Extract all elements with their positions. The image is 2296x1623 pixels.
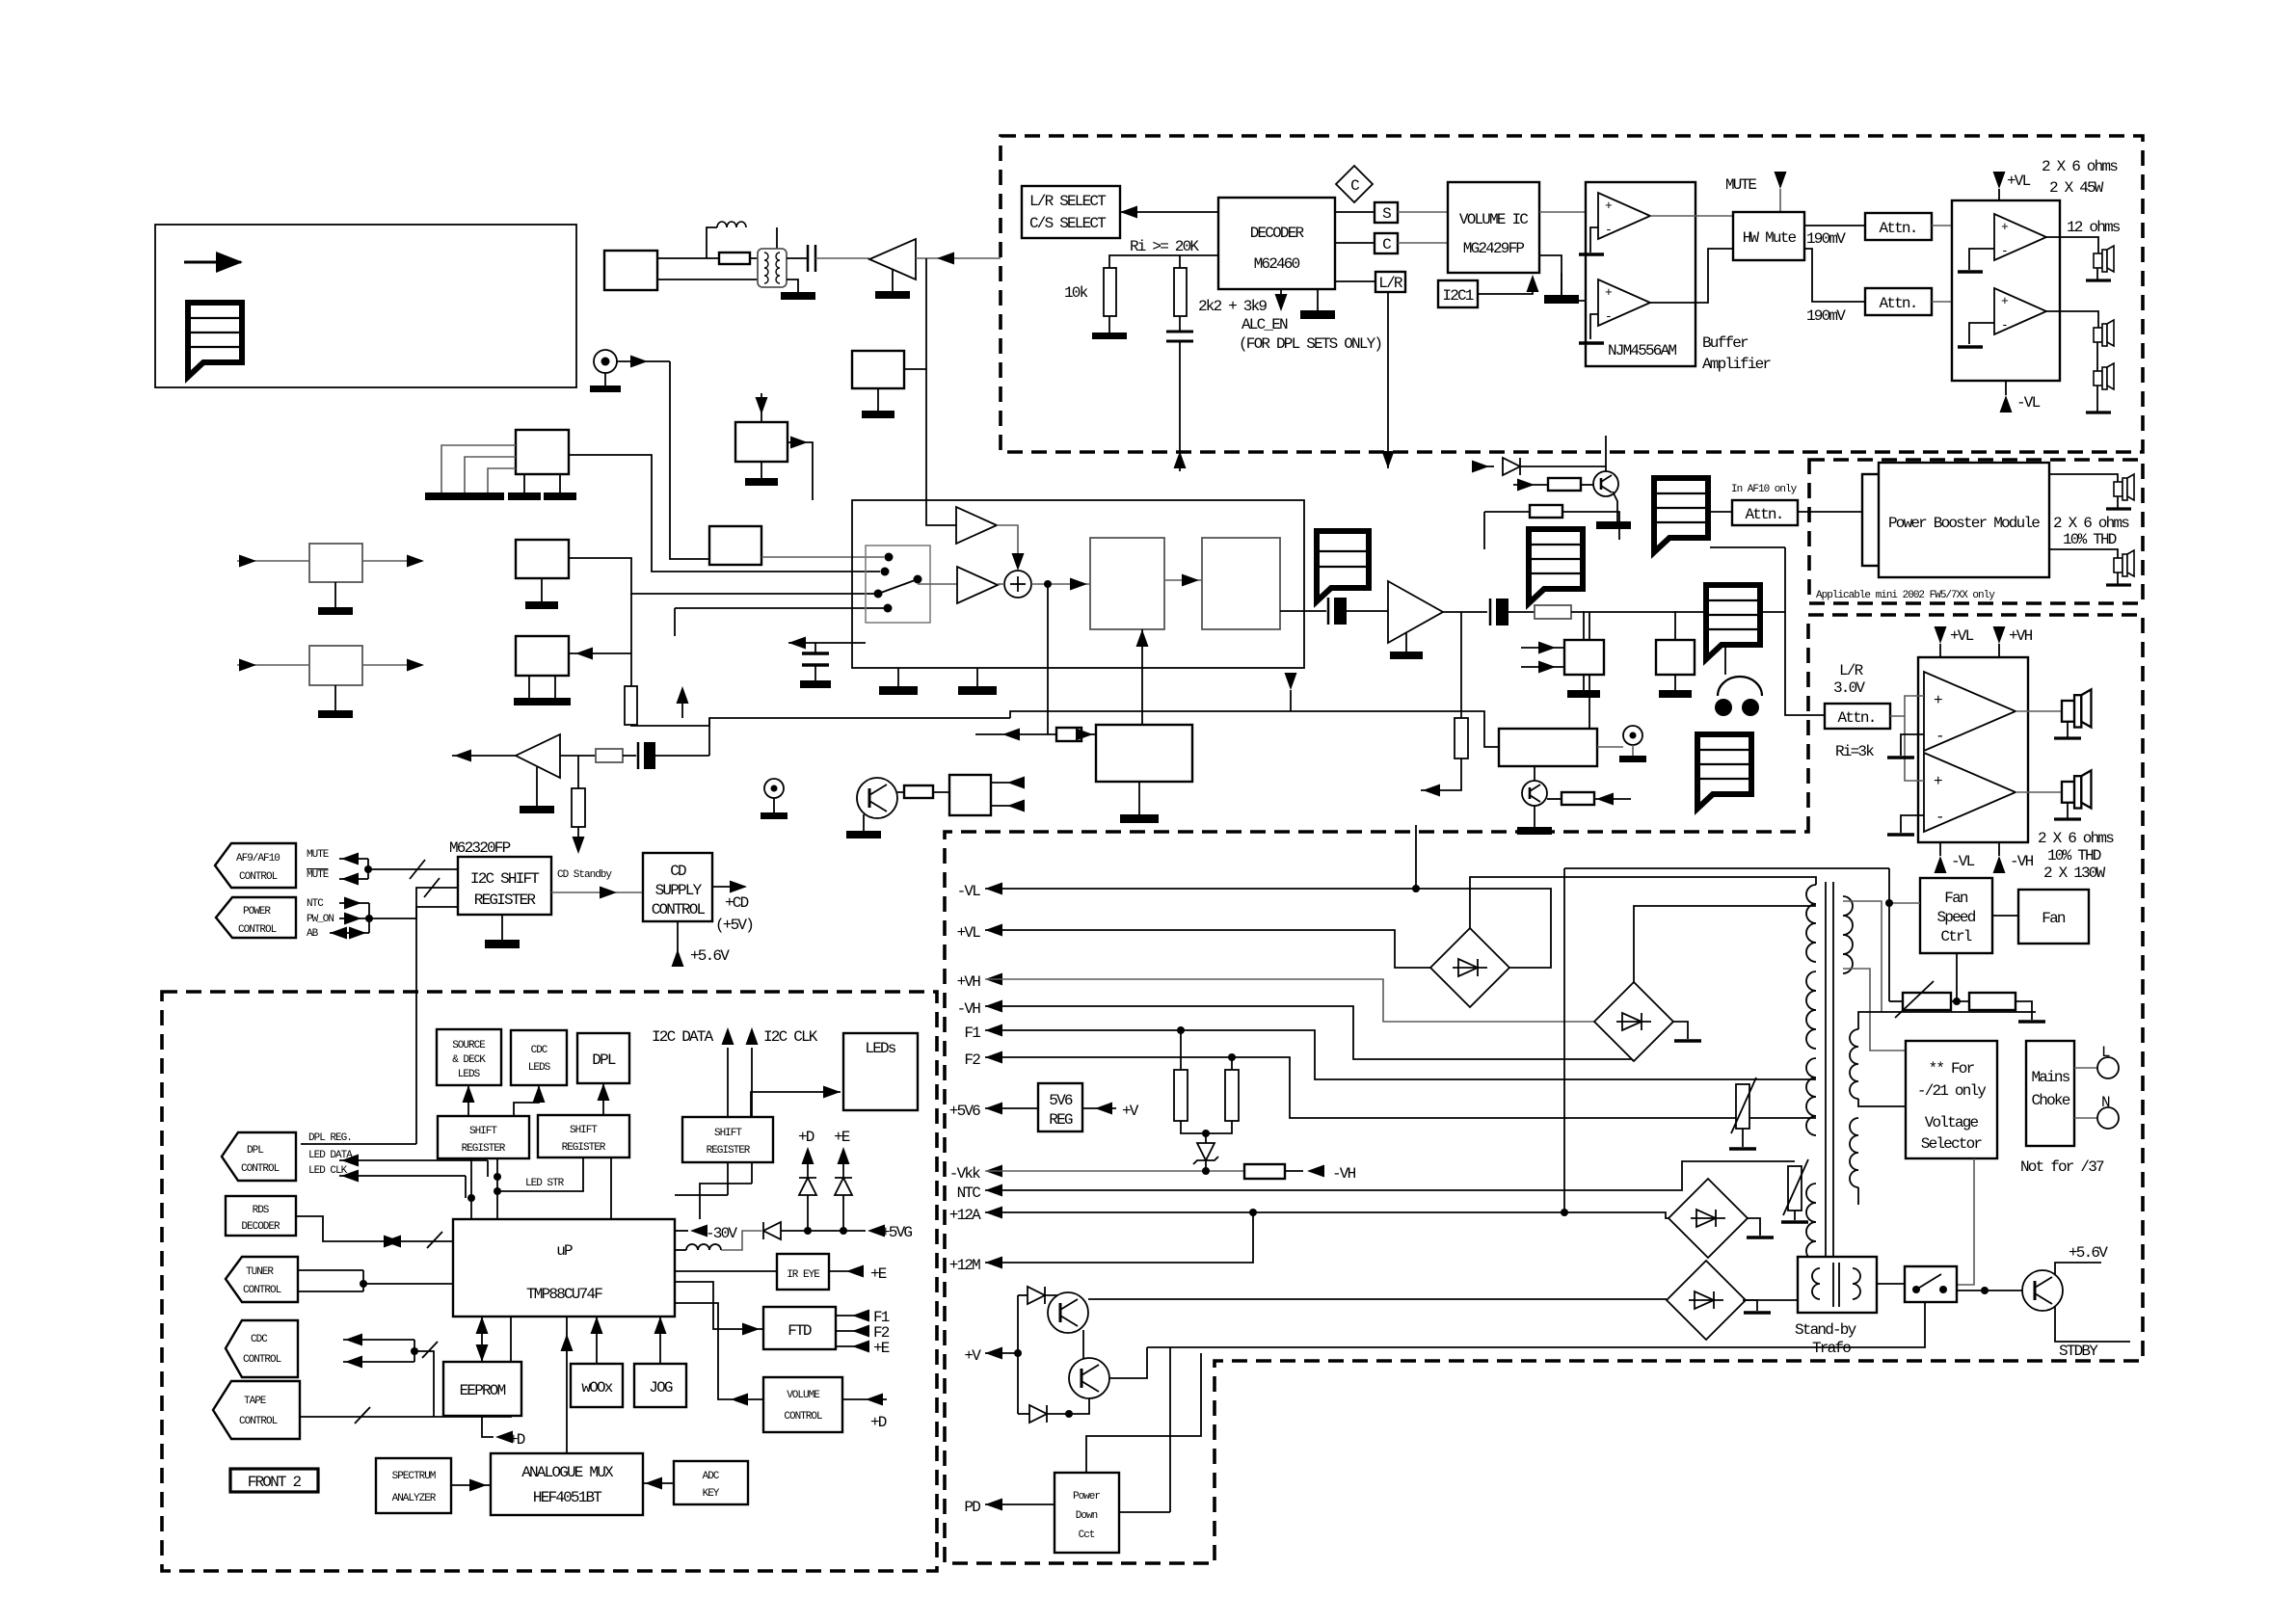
tuner box L2 [309,646,362,685]
svg-text:M62460: M62460 [1254,255,1300,273]
svg-text:Not for /37: Not for /37 [2020,1158,2104,1176]
inductor to +5VG [675,1249,686,1251]
svg-text:I2C1: I2C1 [1442,287,1473,305]
wire to filter lower [657,279,760,280]
FRONT 2 label box [230,1469,318,1492]
cdc leds box [511,1030,567,1085]
N1 wire to select switch [761,556,884,558]
svg-text:(+5V): (+5V) [715,917,753,934]
ADC key box [674,1461,748,1504]
feedback ground buf2 [1590,314,1598,339]
fan speed control box [1920,878,1992,953]
wire into input amp [916,257,1001,259]
M1 ground [541,578,543,601]
headphones icon [1718,677,1762,696]
wire B1 to B2 [1164,579,1202,581]
svg-text:STDBY: STDBY [2059,1343,2098,1360]
svg-text:+V: +V [964,1347,981,1365]
M2 input wire [568,652,631,654]
svg-text:10% THD: 10% THD [2063,531,2117,548]
standby trafo [1798,1257,1877,1313]
coupling capacitor [787,257,808,259]
decoder IC box M0 [516,430,569,474]
svg-text:SHIFT: SHIFT [714,1128,742,1139]
svg-text:I2C SHIFT: I2C SHIFT [470,870,539,888]
headphone driver op-amp [1388,581,1443,643]
main +12 feed vertical [1563,868,1565,1212]
wire I2C1 to volume IC [1478,280,1533,294]
FTD wires [675,1282,763,1329]
svg-text:-VL: -VL [957,883,981,900]
summer node [1004,571,1031,598]
L1 ground [334,582,336,607]
ADC to mux arrow [643,1482,674,1484]
op-amp PA2 [1994,288,2046,334]
dashed container: stereo decoder / volume block [1001,136,2143,452]
svg-text:+12M: +12M [949,1257,980,1274]
-VL rail [1415,825,1417,889]
wire to attn of main amp [1785,612,1825,715]
svg-text:TMP88CU74F: TMP88CU74F [526,1286,602,1303]
bubble phones [1697,734,1751,809]
svg-text:+VL: +VL [2007,173,2031,190]
buffer amplifier NJM4556AM box [1586,182,1695,366]
svg-text:LED STR: LED STR [525,1178,565,1189]
TUNER control pentagon [226,1257,298,1302]
bubble aux [1706,585,1760,659]
L1 output arrow [362,560,422,562]
series resistor [1500,611,1535,613]
svg-text:3.0V: 3.0V [1833,679,1865,697]
svg-text:5V6: 5V6 [1049,1092,1073,1109]
speaker SP3 [2094,363,2114,389]
resistor into C1 [1056,728,1081,741]
volume control wires [675,1303,763,1399]
svg-text:AF9/AF10: AF9/AF10 [236,853,280,865]
svg-text:+12A: +12A [949,1207,981,1224]
svg-text:-VL: -VL [1951,853,1975,870]
CD supply control box [643,853,712,921]
headphone level resistor branch [1460,612,1462,718]
svg-text:SPECTRUM: SPECTRUM [392,1471,436,1482]
svg-text:LEDS: LEDS [528,1062,551,1074]
speaker SP1 [2094,246,2114,272]
svg-text:Amplifier: Amplifier [1702,356,1771,373]
wire attn to power booster [1798,511,1879,513]
svg-text:I2C DATA: I2C DATA [652,1028,714,1046]
transformer primary winding 1 [1843,896,1853,973]
L1 input arrow [237,560,309,562]
supply diode [763,1222,781,1239]
voltage selector box [1906,1041,1997,1158]
T2 emitter ground [863,814,865,831]
svg-text:NTC: NTC [307,898,324,910]
svg-text:RDS: RDS [253,1205,270,1216]
wire volume to buffer op-amp 1 [1539,211,1598,213]
svg-text:Speed: Speed [1936,909,1975,926]
svg-text:C: C [1382,236,1391,253]
svg-text:Attn.: Attn. [1879,295,1916,312]
wire down to input select [670,361,709,559]
svg-text:10% THD: 10% THD [2047,847,2101,865]
svg-text:+VL: +VL [957,924,981,942]
svg-text:Choke: Choke [2031,1092,2069,1109]
svg-text:SUPPLY: SUPPLY [655,882,703,899]
+VL +VH rails [1935,626,1947,644]
wOOx arrow [596,1317,598,1364]
-VL supply [2005,381,2007,395]
VOLUME CONTROL box [763,1377,842,1432]
svg-text:-Vkk: -Vkk [949,1165,980,1183]
input op-amp (left pointing) [869,239,916,279]
svg-text:HW Mute: HW Mute [1743,229,1797,247]
tuner wires [298,1269,363,1271]
RDS decoder box [226,1196,296,1236]
L2 ground [334,685,336,710]
main power amp box [1918,657,2028,842]
svg-text:Fan: Fan [2042,910,2066,927]
svg-text:Stand-by: Stand-by [1795,1321,1857,1339]
fan wires [1992,915,2018,917]
switch contacts [885,553,894,562]
IR eye wires [675,1270,777,1272]
RDS wire to uP [296,1216,453,1241]
muting transistor T1 [1593,471,1618,496]
feedback loop with coil [707,227,717,258]
PA4 feedback ground [1901,815,1924,833]
svg-text:REGISTER: REGISTER [707,1145,751,1157]
F1 ground [877,388,879,411]
main amp + PSU dashed outline [945,615,2143,1563]
svg-text:2 X 6 ohms: 2 X 6 ohms [2053,515,2129,532]
legend arrow symbol [184,261,241,264]
power booster dashed box [1809,460,2143,603]
svg-text:ANALOGUE MUX: ANALOGUE MUX [521,1464,614,1481]
svg-text:VOLUME IC: VOLUME IC [1459,211,1528,228]
svg-text:VOLUME: VOLUME [787,1390,820,1401]
box M1 [516,540,569,578]
svg-text:+5.6V: +5.6V [2069,1244,2108,1262]
svg-text:-30V: -30V [706,1225,737,1242]
T2 collector resistor to box E1 [897,791,949,793]
svg-text:CONTROL: CONTROL [652,901,706,918]
svg-text:12 ohms: 12 ohms [2067,219,2121,236]
resistor 2k2+3k9 [1174,268,1187,316]
fourth select wire [675,607,886,609]
svg-text:Voltage: Voltage [1925,1114,1979,1131]
transistor Q2 [1069,1358,1109,1398]
L2 input arrow [237,664,309,666]
svg-text:& DECK: & DECK [452,1054,486,1066]
svg-text:DECODER: DECODER [241,1221,280,1233]
svg-text:+VL: +VL [1950,627,1974,645]
svg-text:F2: F2 [964,1051,980,1069]
junction to zener [1181,1121,1232,1133]
headphone attn box [1825,704,1890,729]
wire to filter upper [657,257,760,259]
chassis grounds under main box [897,668,899,686]
wire HW mute to attn 2 [1804,249,1865,302]
svg-text:FTD: FTD [788,1322,812,1340]
varistor mid [1736,1084,1749,1129]
A1 input wire from CD decoder [904,368,926,370]
TAPE control pentagon [213,1381,300,1439]
booster speaker 2 [2114,550,2134,576]
wire cap to bottom arrow [1179,341,1181,471]
C1 ground [1138,782,1140,814]
feedback resistor R2 [1484,511,1530,513]
DPL control pentagon [222,1132,296,1181]
svg-text:SHIFT: SHIFT [570,1125,598,1136]
node L/R box [1335,280,1375,282]
PA3 feedback ground [1901,734,1924,756]
svg-text:MUTE: MUTE [1725,176,1756,194]
svg-text:2k2 + 3k9: 2k2 + 3k9 [1198,298,1267,315]
svg-text:M62320FP: M62320FP [449,839,511,857]
bass box C1 [1096,725,1192,782]
svg-text:Trafo: Trafo [1812,1340,1851,1357]
switch logic box E1 [949,775,991,815]
supply branch resistor [577,756,579,788]
L/R C/S select box [1022,186,1120,238]
mute diodes [1473,466,1494,467]
filter ground [787,279,798,292]
transformer secondary winding 4 [1806,1184,1816,1261]
svg-text:CD: CD [670,863,686,880]
ground at volume IC [1561,273,1562,295]
feedback ground buf1 [1590,227,1598,253]
left output wire with cap [788,642,866,644]
EEPROM +D [482,1416,494,1437]
mux to uP arrow [566,1317,568,1453]
svg-text:+E: +E [834,1129,850,1146]
svg-text:uP: uP [556,1242,573,1260]
svg-text:10k: 10k [1064,284,1088,302]
wire buf1 to HW mute [1650,215,1733,217]
decoder U_M62460 [1218,198,1335,289]
svg-text:190mV: 190mV [1806,307,1846,325]
selector to switch wire [1957,1158,1974,1285]
svg-text:L/R SELECT: L/R SELECT [1029,193,1106,210]
power down cct box [1055,1473,1119,1553]
PA4 to speaker [2016,791,2062,793]
line out box G1 [1564,640,1604,675]
svg-text:+E: +E [873,1340,890,1357]
transformer secondary winding 3 [1806,1058,1816,1135]
uP box [453,1219,675,1317]
svg-text:Fan: Fan [1944,890,1968,907]
LEDs box [843,1033,918,1110]
svg-text:CD Standby: CD Standby [557,869,612,881]
svg-text:F1: F1 [964,1024,980,1042]
svg-text:** For: ** For [1929,1060,1975,1078]
svg-text:IR EYE: IR EYE [787,1269,820,1281]
bubble tape out [1529,529,1583,603]
svg-text:ANALYZER: ANALYZER [392,1493,437,1504]
svg-text:Ri >= 20K: Ri >= 20K [1130,238,1199,255]
legend bubble icon [188,303,242,377]
svg-text:REGISTER: REGISTER [462,1143,506,1155]
tuner box L1 [309,544,362,582]
bridge rectifier B4 [1667,1261,1746,1340]
feedback ground PA2 [1969,323,1994,344]
svg-text:2 X 45W: 2 X 45W [2049,179,2104,197]
svg-text:REGISTER: REGISTER [562,1142,606,1154]
switch to standby transistor [1957,1290,2022,1291]
svg-text:+5.6V: +5.6V [690,947,730,965]
svg-text:JOG: JOG [649,1379,673,1397]
svg-text:Ctrl: Ctrl [1940,928,1971,945]
svg-text:-VH: -VH [957,1000,981,1018]
svg-text:CDC: CDC [531,1045,548,1056]
svg-text:+VH: +VH [2009,627,2033,645]
JOG box [634,1364,686,1407]
op-amp PA1 [1994,214,2046,260]
upper feed box F1 [852,351,904,388]
amp PA4 [1924,753,2016,832]
SR3 to LEDs wire [751,1092,841,1117]
svg-text:+D: +D [870,1414,887,1431]
+VL supply [1998,189,2000,200]
feedback ground PA1 [1969,249,1994,270]
bubble cd text [1654,478,1708,552]
bridge rectifier B3 [1669,1179,1748,1258]
svg-text:S: S [1382,205,1391,223]
bleeder resistor 2 [1231,1057,1233,1070]
aux RCA jack [594,350,617,373]
SR1 to cdc leds arrow [514,1085,539,1116]
SR pin wires to uP [470,1158,472,1219]
svg-text:PW_ON: PW_ON [307,914,334,925]
ground at decoder [1317,289,1319,310]
svg-text:NJM4556AM: NJM4556AM [1608,342,1676,359]
bleeder resistor 1 [1180,1030,1182,1070]
FRONT 2 dashed box [162,992,937,1571]
analogue mux box [491,1453,643,1515]
volume IC M62429FP [1448,182,1539,273]
svg-text:C: C [1350,177,1359,195]
register ground [501,915,503,940]
svg-text:AB: AB [307,928,319,940]
summer feed down [1047,584,1049,734]
svg-text:Power: Power [1073,1491,1100,1503]
lower bus [631,718,1010,726]
svg-text:2 X 6 ohms: 2 X 6 ohms [2038,830,2114,847]
svg-text:CDC: CDC [251,1334,268,1345]
Q2 output wires [1109,1347,1147,1378]
coupling cap after volume [1280,610,1326,612]
wire A2 to summer [998,583,1004,585]
mains choke box [2026,1041,2074,1146]
svg-text:TAPE: TAPE [244,1396,267,1407]
woofer RCA jack [1623,726,1642,745]
svg-text:-VL: -VL [2016,394,2041,412]
B2 ground [1673,1022,1688,1039]
M1 wire to select switch [569,558,875,594]
transformer primary feed wires [1843,901,1882,1012]
svg-text:LEDs: LEDs [865,1040,895,1057]
T1 emitter ground [1613,492,1617,521]
power down box wiring [1119,1511,1170,1513]
main selector/preamp box [852,500,1304,668]
svg-text:Power Booster Module: Power Booster Module [1888,515,2040,532]
svg-text:In AF10 only: In AF10 only [1731,484,1798,495]
+CD output [712,886,745,888]
svg-text:HEF4051BT: HEF4051BT [533,1489,601,1506]
svg-text:DPL REG.: DPL REG. [308,1132,352,1144]
wire RCA to node [617,360,670,362]
svg-text:ADC: ADC [703,1471,720,1482]
B4 to standby trafo [1743,1299,1798,1301]
standby switch [1877,1283,1905,1285]
svg-text:CONTROL: CONTROL [239,1416,278,1427]
svg-text:Cct: Cct [1079,1530,1095,1541]
+B arrow up [681,690,683,718]
+5.6V feed [677,921,679,953]
svg-text:KEY: KEY [703,1488,720,1500]
svg-text:Attn.: Attn. [1837,709,1875,727]
wire C to volume IC [1398,242,1448,244]
-VL -VH rails [1939,842,1941,856]
F2 top arrow [761,393,762,422]
spectrum analyzer box [376,1458,451,1513]
branch down to headphone jack [1724,612,1726,675]
Q1 output to bridge B4 [1088,1298,1667,1300]
svg-text:DECODER: DECODER [1250,225,1305,242]
C1 up arrow into B1 [1141,629,1143,725]
I2C shift register box [458,857,551,915]
bus wire 2 to shift register [369,888,458,918]
bridge rectifier B1 [1430,928,1509,1007]
diode D2 [1018,1413,1029,1415]
svg-text:EEPROM: EEPROM [460,1382,506,1399]
node C box [1335,242,1375,244]
svg-text:+5VG: +5VG [881,1224,912,1241]
transistor Q1 [1048,1292,1088,1333]
svg-text:wOOx: wOOx [581,1379,612,1397]
wire decoder input bias rail [1109,255,1218,268]
CD DAC box N1 [709,526,761,565]
attenuator 2 [1865,288,1932,315]
svg-text:Attn.: Attn. [1879,220,1916,237]
svg-text:Selector: Selector [1921,1135,1983,1153]
transformer secondary winding 1 [1806,885,1816,962]
JOG arrow [659,1317,661,1364]
HW mute box [1733,212,1804,260]
tone control box B1 [1090,538,1164,629]
svg-text:L/R: L/R [1839,662,1864,679]
svg-text:SHIFT: SHIFT [469,1126,497,1137]
bus wire to shift register [368,868,458,870]
spectrum to mux arrow [451,1484,491,1486]
amp PA3 [1924,672,2016,751]
dpl box [577,1033,629,1083]
svg-text:+: + [1934,773,1942,790]
svg-text:ALC_EN: ALC_EN [1241,316,1288,333]
svg-text:Mains: Mains [2031,1069,2069,1086]
F2 ground [761,462,762,478]
booster speaker 1 [2114,474,2134,500]
CDC wires [343,1339,414,1341]
shift register 2 [538,1115,629,1157]
fan NTC [1903,993,1951,1010]
svg-text:+: + [1934,692,1942,709]
source & deck leds box [437,1029,501,1085]
record out op-amp A1 [956,507,997,544]
resistor 10k [1104,268,1116,316]
fan box [2018,890,2089,944]
svg-text:DPL: DPL [592,1051,616,1069]
